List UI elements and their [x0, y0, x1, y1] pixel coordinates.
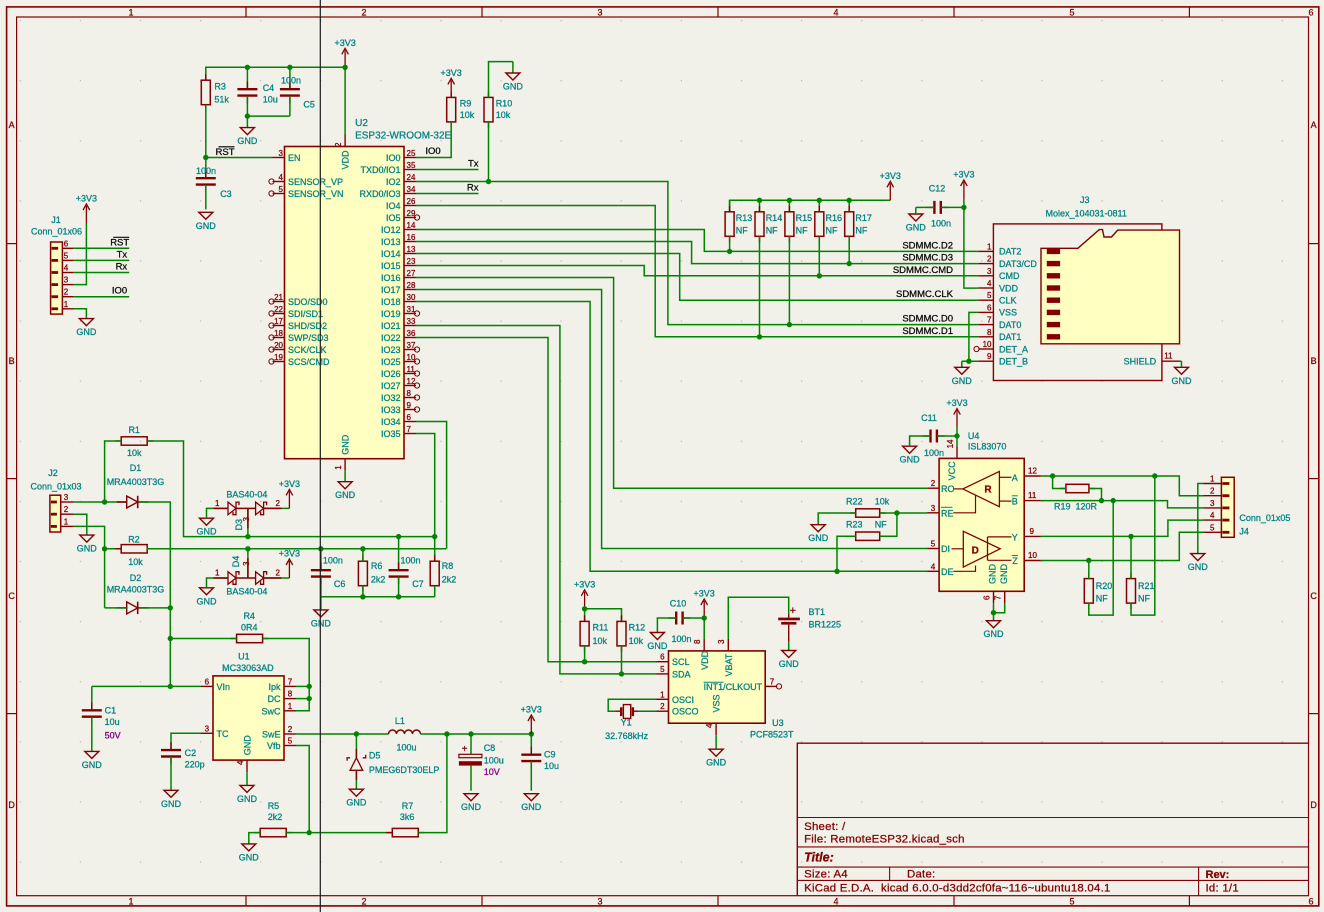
pin 5 Vfb of U1 [267, 737, 296, 752]
junction C5 top [287, 65, 292, 70]
svg-text:20: 20 [274, 341, 283, 350]
svg-text:DAT3/CD: DAT3/CD [999, 259, 1037, 269]
junction J2 pin3 R1 [102, 499, 107, 504]
svg-text:3: 3 [279, 149, 284, 158]
svg-text:+3V3: +3V3 [76, 194, 97, 204]
svg-text:IO2: IO2 [386, 177, 401, 187]
svg-text:TXD0/IO1: TXD0/IO1 [360, 165, 400, 175]
pin 22 SDI/SD1 of U2 [269, 305, 323, 319]
svg-text:C3: C3 [220, 189, 232, 199]
svg-text:3k6: 3k6 [400, 812, 415, 822]
wire J3 DET_B gnd [962, 360, 979, 362]
ground at J3 shield [1172, 361, 1193, 386]
svg-text:J1: J1 [51, 215, 61, 225]
junction R11 top [582, 606, 587, 611]
svg-text:A: A [1012, 473, 1018, 483]
cursor crosshair [319, 0, 321, 912]
svg-text:+3V3: +3V3 [953, 170, 974, 180]
resistor R19 [1053, 476, 1102, 512]
svg-text:GND: GND [346, 798, 367, 808]
ground below J3 pin9 [952, 361, 973, 386]
junction Y R21 [1128, 534, 1133, 539]
svg-text:100n: 100n [196, 166, 216, 176]
svg-text:SwC: SwC [261, 706, 281, 716]
wire IO16 to RS485 RO [416, 278, 927, 489]
diode D2 MRA4003T3G [107, 573, 165, 614]
svg-text:R3: R3 [214, 82, 226, 92]
junction VDD +3V3 [342, 65, 347, 70]
svg-text:NF: NF [855, 225, 867, 235]
pin 3 EN of U2 [273, 149, 301, 163]
svg-text:U4: U4 [968, 431, 980, 441]
svg-text:BAS40-04: BAS40-04 [226, 490, 267, 500]
junction C11 VCC [954, 433, 959, 438]
wire A row [1041, 476, 1203, 496]
svg-text:100u: 100u [484, 755, 504, 765]
resistor R23 [846, 520, 887, 541]
svg-text:IO22: IO22 [381, 333, 401, 343]
ic U4 ISL83070 body [939, 431, 1024, 591]
label SDMMC.D2 [902, 240, 953, 251]
junction R10-IO2 [486, 179, 491, 184]
svg-text:35: 35 [407, 161, 416, 170]
wire VDD to +3V3 rail [344, 67, 346, 134]
svg-text:100n: 100n [924, 448, 944, 458]
svg-text:5: 5 [279, 185, 284, 194]
wire +3V3 to R11 R12 [585, 609, 622, 622]
svg-text:C1: C1 [105, 705, 117, 715]
svg-text:+3V3: +3V3 [441, 68, 462, 78]
svg-text:10u: 10u [544, 761, 559, 771]
pin 19 SCS/CMD of U2 [269, 353, 330, 367]
svg-text:NF: NF [875, 520, 887, 530]
inductor L1 [389, 716, 421, 753]
svg-text:32.768kHz: 32.768kHz [605, 731, 649, 741]
pin 6 VIn of U1 [201, 677, 230, 692]
svg-text:2: 2 [334, 142, 343, 147]
wire J4 pin1 gnd [1198, 484, 1203, 554]
svg-text:R20: R20 [1096, 581, 1113, 591]
svg-text:2k2: 2k2 [268, 812, 283, 822]
svg-text:VIn: VIn [217, 682, 231, 692]
capacitor C12 [927, 184, 951, 229]
svg-text:C6: C6 [334, 579, 346, 589]
svg-text:NF: NF [1096, 594, 1108, 604]
svg-text:3: 3 [64, 276, 69, 285]
svg-text:NF: NF [1138, 594, 1150, 604]
svg-text:+: + [462, 744, 468, 755]
svg-text:1: 1 [215, 569, 220, 578]
pin 7 INT1/CLKOUT of U3 [704, 677, 782, 692]
svg-text:24: 24 [407, 173, 416, 182]
svg-text:U3: U3 [772, 718, 784, 728]
pin 33 IO21 of U2 [381, 317, 416, 331]
pin 11 B of U4 [999, 491, 1041, 507]
svg-text:TC: TC [217, 729, 229, 739]
svg-text:BT1: BT1 [809, 607, 826, 617]
svg-text:GND: GND [335, 490, 356, 500]
svg-text:J2: J2 [48, 468, 58, 478]
svg-text:5: 5 [1069, 8, 1074, 18]
svg-text:8: 8 [407, 389, 412, 398]
junction gnd rail C7 [396, 594, 401, 599]
svg-text:6: 6 [64, 239, 69, 248]
wire J1 pin3 +3V3 [73, 223, 86, 285]
svg-text:B: B [1012, 497, 1018, 507]
svg-text:6: 6 [982, 595, 991, 600]
svg-text:IO0: IO0 [112, 286, 127, 297]
svg-text:CMD: CMD [999, 271, 1020, 281]
svg-text:C4: C4 [263, 83, 275, 93]
ic U1 MC33063AD body [213, 651, 284, 760]
svg-text:NF: NF [766, 225, 778, 235]
ground below C9 [521, 794, 542, 813]
svg-text:Conn_01x03: Conn_01x03 [30, 482, 81, 492]
svg-text:7: 7 [987, 316, 992, 325]
ground below U1 [237, 772, 258, 804]
svg-text:3: 3 [64, 493, 69, 502]
svg-text:10k: 10k [128, 557, 143, 567]
svg-text:100n: 100n [323, 556, 343, 566]
svg-text:IO33: IO33 [381, 405, 401, 415]
svg-text:ISL83070: ISL83070 [968, 442, 1007, 452]
power +3V3 at J3 VDD [953, 170, 974, 200]
wire R22 left to GND [818, 513, 856, 525]
ground at J4 [1188, 554, 1209, 573]
pin 4 VSS of U3 [705, 723, 716, 735]
wire R2 right divider row [147, 548, 447, 550]
svg-text:0R4: 0R4 [241, 623, 258, 633]
pin 7 DAT0 of J3 [978, 316, 1021, 330]
pin 7 Ipk of U1 [268, 677, 296, 692]
svg-text:3: 3 [205, 724, 210, 733]
capacitor C6 [311, 549, 346, 597]
svg-text:D2: D2 [130, 573, 142, 583]
pin 30 IO18 of U2 [381, 293, 416, 307]
pin 10 DET_A of J3 [974, 340, 1028, 354]
wire SwE row right [421, 733, 532, 735]
wire J1 pin1 GND [73, 309, 86, 319]
junction gnd rail R6 [360, 594, 365, 599]
svg-text:SDA: SDA [672, 669, 691, 679]
svg-text:R: R [984, 484, 992, 495]
svg-text:+: + [790, 605, 796, 617]
crystal Y1 32.768kHz [605, 699, 656, 741]
label Rx [467, 183, 479, 194]
pin 2 RO of U4 [927, 479, 963, 494]
svg-text:GND: GND [242, 735, 252, 756]
pin 12 IO27 of U2 [381, 377, 420, 391]
svg-text:IO0: IO0 [386, 153, 401, 163]
svg-text:VCC: VCC [947, 461, 957, 481]
svg-text:26: 26 [407, 197, 416, 206]
pin 9 DET_B of J3 [978, 352, 1028, 366]
svg-text:Y1: Y1 [621, 718, 632, 728]
pin 2 DAT3/CD of J3 [978, 255, 1037, 269]
wire C12 right [941, 206, 964, 208]
diode D1 MRA4003T3G [107, 463, 165, 508]
power +3V3 at pullup bank [880, 171, 901, 201]
svg-text:GND: GND [900, 455, 921, 465]
svg-text:OSCO: OSCO [672, 707, 699, 717]
svg-text:4: 4 [833, 8, 838, 18]
power +3V3 above R9 [441, 68, 462, 98]
capacitor C1 [82, 686, 121, 751]
wire +3V3 to J3 VDD [964, 199, 978, 288]
svg-text:MRA4003T3G: MRA4003T3G [107, 585, 165, 595]
svg-text:GND: GND [706, 758, 727, 768]
svg-text:D: D [972, 545, 979, 556]
svg-text:VDD: VDD [700, 650, 710, 670]
svg-text:RE: RE [941, 508, 954, 518]
wire R3 bottom to EN [205, 105, 207, 158]
junction A R21 [1152, 473, 1157, 478]
svg-text:10: 10 [1028, 551, 1037, 560]
junction A R19 [1050, 473, 1055, 478]
junction feedback [307, 830, 312, 835]
svg-text:Z: Z [1012, 556, 1018, 566]
svg-text:GND: GND [77, 544, 98, 554]
svg-text:DAT0: DAT0 [999, 320, 1021, 330]
svg-text:R1: R1 [128, 425, 140, 435]
junction R23 DE [834, 569, 839, 574]
label SDMMC.CMD [893, 265, 953, 276]
svg-text:NF: NF [736, 225, 748, 235]
svg-text:3: 3 [987, 267, 992, 276]
svg-text:C11: C11 [921, 413, 937, 423]
svg-text:2: 2 [931, 479, 936, 488]
wire R7 right to output [418, 734, 447, 833]
svg-text:3: 3 [242, 561, 251, 566]
svg-text:100u: 100u [396, 742, 416, 752]
junction C8 [468, 731, 473, 736]
junction EN node [203, 155, 208, 160]
pin 6 IO34 of U2 [381, 413, 416, 427]
svg-text:100n: 100n [671, 634, 691, 644]
pin 9 IO33 of U2 [381, 401, 420, 415]
svg-text:IO26: IO26 [381, 369, 401, 379]
svg-text:D1: D1 [130, 463, 142, 473]
svg-text:Conn_01x05: Conn_01x05 [1239, 513, 1290, 523]
svg-text:27: 27 [407, 269, 416, 278]
svg-text:10k: 10k [875, 496, 890, 506]
svg-text:12: 12 [1028, 467, 1037, 476]
svg-text:2: 2 [361, 897, 366, 907]
svg-text:17: 17 [274, 317, 283, 326]
svg-text:SDMMC.D1: SDMMC.D1 [902, 326, 953, 337]
ground below C6 [311, 597, 332, 629]
wire SwE row left [296, 733, 389, 735]
svg-text:6: 6 [987, 303, 992, 312]
svg-text:VDD: VDD [341, 150, 351, 170]
svg-text:GND: GND [197, 527, 218, 537]
svg-text:R17: R17 [855, 213, 872, 223]
pin 9 Y of U4 [988, 527, 1041, 543]
pin 6 VSS of J3 [978, 303, 1017, 317]
svg-text:11: 11 [1028, 491, 1037, 500]
power +3V3 at U3 [694, 589, 715, 619]
svg-text:3: 3 [597, 897, 602, 907]
svg-text:2: 2 [660, 702, 665, 711]
svg-text:GND: GND [647, 641, 668, 651]
svg-text:34: 34 [407, 185, 416, 194]
label SDMMC.D3 [902, 253, 953, 264]
pin 26 IO4 of U2 [386, 197, 416, 211]
pin 2 VDD of U2 [334, 135, 351, 170]
pin 5 SENSOR_VN of U2 [269, 185, 344, 199]
wire C4-C5 bottoms [247, 115, 290, 117]
svg-text:GND: GND [239, 852, 260, 862]
wire SDMMC.D3 IO13 [416, 242, 978, 264]
power +3V3 at U4 [946, 398, 967, 428]
resistor R13 [725, 200, 752, 254]
svg-text:5: 5 [931, 540, 936, 549]
svg-text:6: 6 [660, 653, 665, 662]
pin 20 SCK/CLK of U2 [269, 341, 327, 355]
pin 5 SDA of U3 [657, 665, 691, 680]
svg-text:4: 4 [279, 173, 284, 182]
junction Z R20 [1086, 558, 1091, 563]
junction R2 left [102, 546, 107, 551]
svg-text:7: 7 [407, 425, 412, 434]
svg-text:GND: GND [988, 564, 998, 585]
svg-text:6: 6 [1308, 897, 1313, 907]
wire D2 anode [105, 607, 127, 609]
svg-text:J4: J4 [1239, 527, 1249, 537]
power +3V3 at J1 [76, 194, 97, 224]
svg-text:4: 4 [931, 562, 936, 571]
svg-text:2: 2 [1210, 487, 1215, 496]
svg-text:100n: 100n [401, 556, 421, 566]
svg-text:4: 4 [833, 897, 838, 907]
resistor R6 [358, 549, 385, 597]
wire C12 left to GND [921, 206, 934, 208]
svg-text:1: 1 [128, 897, 133, 907]
svg-text:IO16: IO16 [381, 273, 401, 283]
diode D5 PMEG6DT30ELP [347, 734, 439, 789]
svg-text:4: 4 [1210, 511, 1215, 520]
svg-text:Id: 1/1: Id: 1/1 [1206, 883, 1239, 895]
capacitor C4 [237, 67, 277, 116]
svg-text:IO14: IO14 [381, 249, 401, 259]
svg-text:2: 2 [276, 499, 281, 508]
svg-text:GND: GND [808, 533, 829, 543]
svg-text:R4: R4 [243, 611, 255, 621]
svg-text:R19 120R: R19 120R [1054, 502, 1098, 512]
resistor R7 [386, 801, 424, 837]
svg-text:Ipk: Ipk [268, 682, 281, 692]
title block [797, 743, 1308, 896]
label RST at J1 [110, 237, 129, 248]
svg-text:GND: GND [76, 327, 97, 337]
svg-text:2: 2 [64, 505, 69, 514]
svg-text:2: 2 [987, 255, 992, 264]
svg-text:GND: GND [237, 794, 258, 804]
svg-text:7: 7 [288, 677, 293, 686]
junction R11 SCL [582, 659, 587, 664]
svg-text:5: 5 [987, 291, 992, 300]
svg-text:IO13: IO13 [381, 237, 401, 247]
pin 4 GND of U1 [236, 760, 247, 772]
svg-text:GND: GND [197, 596, 218, 606]
junction divider C7 [396, 534, 401, 539]
resistor R4 [231, 611, 269, 643]
svg-text:11: 11 [1164, 352, 1173, 361]
svg-text:30: 30 [407, 293, 416, 302]
svg-text:R8: R8 [442, 561, 454, 571]
wire R23 left to DE [837, 536, 856, 571]
svg-text:GND: GND [779, 659, 800, 669]
pin 5 CLK of J3 [978, 291, 1016, 305]
svg-text:IO21: IO21 [381, 321, 401, 331]
svg-text:8: 8 [987, 328, 992, 337]
resistor R16 [815, 200, 842, 278]
diode D4 BAS40-04 [197, 546, 301, 606]
svg-text:5: 5 [1069, 897, 1074, 907]
svg-text:R22: R22 [846, 496, 863, 506]
junction R17 top [847, 198, 852, 203]
junction B R19 [1099, 498, 1104, 503]
ground below C1 [82, 751, 103, 770]
svg-text:Rx: Rx [467, 183, 479, 194]
svg-text:SCS/CMD: SCS/CMD [288, 357, 330, 367]
wire SDMMC.D1 IO4 [416, 206, 978, 337]
resistor R10 [484, 91, 512, 128]
svg-text:3: 3 [242, 517, 251, 522]
svg-text:VDD: VDD [999, 283, 1019, 293]
svg-text:D4: D4 [231, 556, 241, 568]
wire SDMMC.D0 IO2 [416, 182, 978, 325]
pin 8 DC of U1 [268, 690, 297, 705]
svg-text:2: 2 [276, 569, 281, 578]
svg-text:SDMMC.CLK: SDMMC.CLK [896, 289, 954, 300]
resistor R5 [254, 801, 292, 837]
svg-text:1: 1 [215, 499, 220, 508]
svg-text:2: 2 [64, 288, 69, 297]
svg-text:C7: C7 [412, 579, 424, 589]
svg-text:25: 25 [407, 149, 416, 158]
pin 4 VDD of J3 [978, 279, 1018, 293]
svg-text:R6: R6 [371, 561, 383, 571]
svg-text:R14: R14 [766, 213, 783, 223]
wire Z row [1041, 532, 1203, 560]
junction R14 top [757, 198, 762, 203]
connector J3 SD card socket body [993, 195, 1179, 380]
svg-text:19: 19 [274, 353, 283, 362]
svg-text:10u: 10u [105, 717, 120, 727]
capacitor C8 polarized [459, 734, 504, 791]
svg-text:1: 1 [1210, 475, 1215, 484]
wire R1 left [105, 441, 122, 502]
svg-text:GND: GND [906, 223, 927, 233]
ground below J1 [76, 319, 97, 338]
resistor R12 [617, 615, 645, 652]
wire +3V3 to U4 VCC [956, 428, 958, 447]
junction RE R22 [894, 510, 899, 515]
ground at R22 [808, 525, 829, 544]
svg-text:1: 1 [288, 702, 293, 711]
wire IO34 to divider [416, 422, 447, 549]
svg-text:SDI/SD1: SDI/SD1 [288, 309, 323, 319]
svg-text:DAT1: DAT1 [999, 332, 1021, 342]
svg-text:7: 7 [994, 595, 1003, 600]
svg-text:Rev:: Rev: [1206, 869, 1230, 881]
svg-text:IO15: IO15 [381, 261, 401, 271]
svg-text:GND: GND [161, 799, 182, 809]
diode D3 BAS40-04 [197, 479, 301, 539]
svg-text:SDMMC.D2: SDMMC.D2 [902, 240, 953, 251]
svg-text:6: 6 [1308, 8, 1313, 18]
